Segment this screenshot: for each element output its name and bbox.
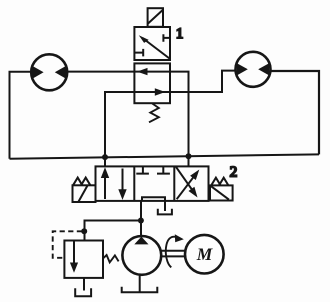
relief valve spring [103,255,119,262]
drive shaft (double line) [161,251,185,257]
valve U1 top position square [134,27,170,60]
hydraulic motor MR (right) [236,52,271,87]
valve U2 right solenoid actuator [210,178,233,201]
relief valve drain pipe [83,278,85,291]
wire: bus up through valve 1 lower path to right motor left port [105,71,236,158]
junction dot: relief inlet / pilot line [81,228,87,234]
valve U2 body (3-position) [96,166,209,201]
pump P1 [122,236,161,275]
svg-text:M: M [196,244,214,264]
relief valve V1 [64,241,103,278]
junction dot: bus / valve1 left branch [102,154,108,160]
wire: right vertical up to right motor right port [270,71,319,154]
wire: left motor right port through valve 1 upper path, down to bus [67,72,189,157]
wire: bottom bus line [10,154,320,158]
wire: bus stub down to valve 2 port B [188,156,190,166]
hydraulic motor ML (left) [31,54,67,90]
valve U1 solenoid box [148,8,163,27]
tank T2 (below relief valve) [75,288,91,296]
junction dot: pump line / unloading branch [138,218,144,224]
valve U2 drain pipe to tank [164,201,166,211]
pilot line (dashed) to relief valve [53,231,82,257]
tank T1 (below valve 2) [158,209,172,215]
valve U2 left position: parallel arrows [101,167,127,200]
valve U2 left solenoid actuator [73,178,96,202]
electric motor M1 [185,235,224,274]
wire: unloading branch to relief valve [85,221,141,241]
valve U1 bottom position square [134,63,170,103]
junction dot: bus / valve1 right branch [186,153,192,159]
valve U1 return spring [149,104,159,123]
valve U2 centre position: blocked ports and P-T bypass [136,166,170,201]
wire: pump pressure line up to valve 2 port P [140,201,142,236]
tank T3 (below pump) [122,287,158,293]
pump suction pipe [139,275,141,292]
wire: left motor left port to left bus corner [10,72,33,159]
svg-text:1: 1 [176,26,183,42]
valve U2 right position: crossed arrows [176,167,199,199]
svg-text:2: 2 [230,165,238,181]
rotation direction arrow [166,234,184,267]
wire: bus stub down to valve 2 port A [104,157,106,166]
